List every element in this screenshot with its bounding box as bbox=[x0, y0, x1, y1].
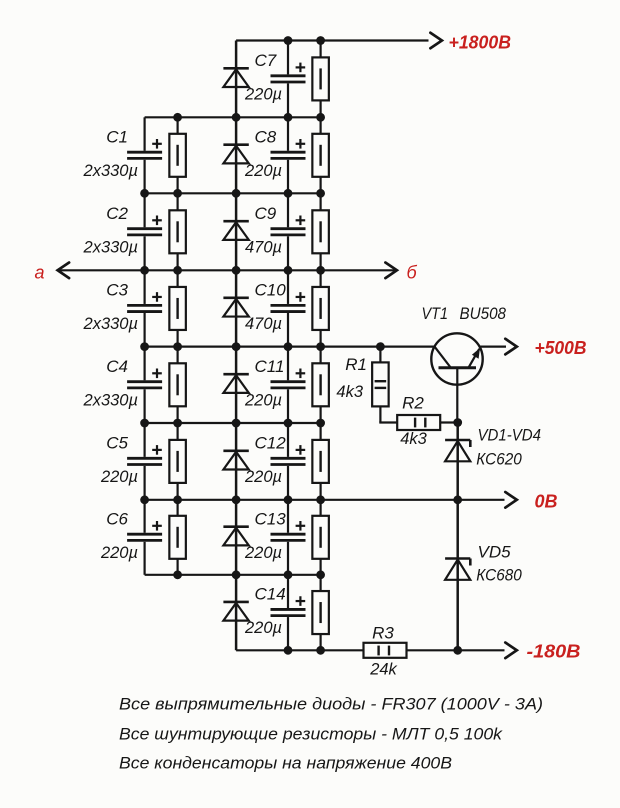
wire mid cap column seg 3 bbox=[287, 270, 289, 346]
wire R1 top stub bbox=[379, 347, 381, 363]
label KC680 bbox=[476, 566, 522, 585]
wire row3 a-b bus bbox=[60, 269, 396, 271]
svg-text:C3: C3 bbox=[106, 280, 128, 299]
resistor shunt of C6 bbox=[169, 516, 186, 559]
wire mid cap column seg 6 bbox=[287, 500, 289, 575]
resistor shunt of C10 bbox=[312, 287, 329, 330]
wire mid cap column seg 5 bbox=[287, 423, 289, 500]
arrow +1800V output bbox=[430, 33, 442, 49]
svg-text:470µ: 470µ bbox=[245, 238, 282, 256]
svg-text:4k3: 4k3 bbox=[336, 383, 363, 401]
wire right resistor column seg 1 bbox=[320, 117, 322, 193]
svg-text:R3: R3 bbox=[372, 624, 394, 643]
svg-text:Все выпрямительные диоды - FR3: Все выпрямительные диоды - FR307 (1000V … bbox=[119, 695, 543, 714]
wire left cap column seg 4 bbox=[144, 423, 146, 500]
wire left resistor column seg 5 bbox=[177, 500, 179, 575]
value C6 220µ bbox=[100, 544, 138, 562]
value R3 24k bbox=[369, 661, 397, 679]
label VD1-VD4 bbox=[478, 426, 542, 445]
wire left resistor column seg 4 bbox=[177, 423, 179, 500]
resistor shunt of C9 bbox=[312, 210, 329, 253]
label node b bbox=[407, 263, 418, 283]
svg-text:C2: C2 bbox=[106, 204, 128, 223]
capacitor C8 bbox=[271, 139, 306, 158]
svg-text:C1: C1 bbox=[106, 127, 128, 146]
value C11 220µ bbox=[244, 391, 282, 409]
svg-text:C4: C4 bbox=[106, 357, 128, 376]
diode VD-rect5 bbox=[223, 374, 248, 393]
capacitor C5 bbox=[127, 445, 162, 464]
value C1 2x330µ bbox=[83, 162, 138, 180]
arrow node a (left) bbox=[58, 263, 70, 279]
svg-text:а: а bbox=[35, 263, 45, 283]
value C14 220µ bbox=[244, 619, 282, 637]
label C11 bbox=[255, 357, 285, 376]
value C12 220µ bbox=[244, 468, 282, 486]
value C3 2x330µ bbox=[83, 315, 138, 333]
svg-text:220µ: 220µ bbox=[244, 619, 282, 637]
resistor shunt of C12 bbox=[312, 440, 329, 483]
diode VD-rect1 bbox=[223, 68, 248, 87]
label +1800V bbox=[449, 33, 512, 53]
zener diode VD1-VD4 bbox=[445, 440, 470, 461]
wire right resistor column seg 7 bbox=[320, 575, 322, 651]
wire left cap column seg 3 bbox=[144, 347, 146, 423]
svg-text:BU508: BU508 bbox=[460, 304, 507, 323]
label C12 bbox=[255, 433, 287, 452]
resistor shunt of C2 bbox=[169, 210, 186, 253]
capacitor C9 bbox=[271, 216, 306, 235]
capacitor C3 bbox=[127, 292, 162, 311]
diode VD-rect6 bbox=[223, 451, 248, 470]
label R1 bbox=[345, 355, 367, 374]
svg-text:Все конденсаторы на напряжение: Все конденсаторы на напряжение 400В bbox=[119, 753, 452, 772]
svg-text:220µ: 220µ bbox=[244, 544, 282, 562]
value C13 220µ bbox=[244, 544, 282, 562]
svg-text:C9: C9 bbox=[255, 204, 277, 223]
resistor shunt of C13 bbox=[312, 516, 329, 559]
wire ladder row1 bbox=[145, 116, 321, 118]
label C5 bbox=[106, 433, 128, 452]
svg-text:R1: R1 bbox=[345, 355, 367, 374]
wire base node to 0V through VD1-VD4 bbox=[456, 423, 459, 500]
wire mid cap column seg 1 bbox=[287, 117, 289, 193]
wire mid cap column seg 7 bbox=[287, 575, 289, 651]
svg-text:220µ: 220µ bbox=[244, 162, 282, 180]
diode VD-rect3 bbox=[223, 221, 248, 240]
label KC620 bbox=[476, 450, 522, 469]
svg-text:+500В: +500В bbox=[535, 338, 587, 358]
svg-text:C11: C11 bbox=[255, 357, 285, 376]
value C5 220µ bbox=[100, 468, 138, 486]
node base/R2/zener junction bbox=[453, 418, 462, 427]
wire left resistor column seg 0 bbox=[177, 117, 179, 193]
wire R1 bottom to R2 bbox=[379, 406, 397, 422]
svg-text:б: б bbox=[407, 263, 418, 283]
wire left cap column seg 0 bbox=[144, 117, 146, 193]
label C14 bbox=[255, 585, 286, 604]
label VT1 bbox=[422, 304, 449, 323]
svg-text:0В: 0В bbox=[535, 492, 558, 512]
svg-text:470µ: 470µ bbox=[245, 315, 282, 333]
capacitor C10 bbox=[271, 292, 306, 311]
arrow node b (right) bbox=[385, 263, 397, 279]
svg-text:2x330µ: 2x330µ bbox=[83, 238, 138, 256]
label C3 bbox=[106, 280, 128, 299]
label +500V bbox=[535, 338, 587, 358]
label C6 bbox=[106, 509, 128, 528]
resistor shunt of C5 bbox=[169, 440, 186, 483]
capacitor C11 bbox=[271, 369, 306, 388]
svg-text:C13: C13 bbox=[255, 509, 287, 528]
value C2 2x330µ bbox=[83, 238, 138, 256]
wire right resistor column seg 3 bbox=[320, 270, 322, 346]
arrow 0V output bbox=[505, 492, 517, 508]
zener diode VD5 bbox=[445, 559, 470, 580]
svg-text:C14: C14 bbox=[255, 585, 286, 604]
label C10 bbox=[255, 280, 287, 299]
wire top rail +1800V (row0) bbox=[236, 39, 428, 41]
svg-text:КС680: КС680 bbox=[476, 566, 522, 585]
capacitor C12 bbox=[271, 445, 306, 464]
wire mid cap column seg 4 bbox=[287, 347, 289, 423]
svg-text:C5: C5 bbox=[106, 433, 128, 452]
svg-text:220µ: 220µ bbox=[100, 468, 138, 486]
wire mid cap column seg 0 bbox=[287, 41, 289, 118]
svg-text:220µ: 220µ bbox=[100, 544, 138, 562]
value R2 4k3 bbox=[400, 430, 427, 448]
wire right resistor column seg 2 bbox=[320, 193, 322, 270]
label C7 bbox=[255, 51, 277, 70]
resistor shunt of C3 bbox=[169, 287, 186, 330]
svg-text:VD1-VD4: VD1-VD4 bbox=[478, 426, 542, 445]
capacitor C13 bbox=[271, 521, 306, 540]
label C8 bbox=[255, 127, 277, 146]
value R1 4k3 bbox=[336, 383, 363, 401]
wire mid cap column seg 2 bbox=[287, 193, 289, 270]
wire 0V to -180V rail through VD5 bbox=[456, 500, 459, 651]
wire emitter to +500V arrow bbox=[479, 346, 506, 348]
resistor shunt of C4 bbox=[169, 363, 186, 406]
svg-text:4k3: 4k3 bbox=[400, 430, 427, 448]
svg-text:-180В: -180В bbox=[527, 642, 581, 662]
svg-text:2x330µ: 2x330µ bbox=[83, 315, 138, 333]
resistor shunt of C7 bbox=[312, 57, 329, 100]
label R2 bbox=[402, 394, 424, 413]
wire row4 to transistor collector bbox=[145, 346, 435, 348]
value C10 470µ bbox=[245, 315, 282, 333]
wire row6 0V bus bbox=[145, 499, 505, 501]
label R3 bbox=[372, 624, 394, 643]
resistor shunt of C11 bbox=[312, 363, 329, 406]
svg-text:220µ: 220µ bbox=[244, 391, 282, 409]
resistor shunt of C14 bbox=[312, 591, 329, 634]
capacitor C14 bbox=[271, 596, 306, 615]
value C9 470µ bbox=[245, 238, 282, 256]
value C8 220µ bbox=[244, 162, 282, 180]
wire bottom rail (row8) left of R3 bbox=[236, 649, 363, 651]
svg-text:+1800В: +1800В bbox=[449, 33, 512, 53]
label C2 bbox=[106, 204, 128, 223]
wire left resistor column seg 3 bbox=[177, 347, 179, 423]
label C13 bbox=[255, 509, 287, 528]
svg-text:2x330µ: 2x330µ bbox=[83, 162, 138, 180]
label -180V bbox=[527, 642, 581, 662]
label BU508 bbox=[460, 304, 507, 323]
wire bottom rail (row8) right of R3 bbox=[407, 649, 505, 651]
wire diode column bbox=[235, 41, 238, 651]
wire right resistor column seg 0 bbox=[320, 41, 322, 118]
capacitor C6 bbox=[127, 521, 162, 540]
resistor R1 bbox=[372, 362, 389, 406]
svg-text:220µ: 220µ bbox=[244, 468, 282, 486]
diode VD-rect2 bbox=[223, 145, 248, 164]
transistor VT1 BU508 bbox=[431, 333, 482, 422]
capacitor C2 bbox=[127, 216, 162, 235]
label C1 bbox=[106, 127, 128, 146]
svg-text:VT1: VT1 bbox=[422, 304, 449, 323]
diode VD-rect8 bbox=[223, 602, 248, 621]
resistor shunt of C8 bbox=[312, 134, 329, 177]
wire left resistor column seg 1 bbox=[177, 193, 179, 270]
label node a bbox=[35, 263, 45, 283]
resistor shunt of C1 bbox=[169, 134, 186, 177]
svg-text:Все шунтирующие резисторы - МЛ: Все шунтирующие резисторы - МЛТ 0,5 100k bbox=[119, 725, 504, 744]
svg-text:C12: C12 bbox=[255, 433, 287, 452]
value C4 2x330µ bbox=[83, 391, 138, 409]
svg-text:VD5: VD5 bbox=[478, 543, 512, 562]
arrow +500V output bbox=[505, 339, 517, 355]
svg-text:24k: 24k bbox=[369, 661, 397, 679]
svg-text:C8: C8 bbox=[255, 127, 277, 146]
svg-text:2x330µ: 2x330µ bbox=[83, 391, 138, 409]
svg-text:C7: C7 bbox=[255, 51, 277, 70]
svg-text:R2: R2 bbox=[402, 394, 424, 413]
value C7 220µ bbox=[244, 85, 282, 103]
diode VD-rect4 bbox=[223, 298, 248, 317]
resistor R3 bbox=[364, 643, 407, 658]
svg-text:КС620: КС620 bbox=[476, 450, 522, 469]
capacitor C1 bbox=[127, 139, 162, 158]
resistor R2 bbox=[397, 415, 440, 430]
label C4 bbox=[106, 357, 128, 376]
capacitor C7 bbox=[271, 63, 306, 82]
capacitor C4 bbox=[127, 369, 162, 388]
wire right resistor column seg 5 bbox=[320, 423, 322, 500]
wire right resistor column seg 4 bbox=[320, 347, 322, 423]
wire R2 to base node bbox=[440, 421, 458, 423]
label VD5 bbox=[478, 543, 512, 562]
wire left cap column seg 1 bbox=[144, 193, 146, 270]
wire ladder row5 bbox=[145, 422, 321, 424]
svg-text:C10: C10 bbox=[255, 280, 287, 299]
wire left resistor column seg 2 bbox=[177, 270, 179, 346]
wire left cap column seg 5 bbox=[144, 500, 146, 575]
label 0V bbox=[535, 492, 558, 512]
label C9 bbox=[255, 204, 277, 223]
wire right resistor column seg 6 bbox=[320, 500, 322, 575]
svg-text:C6: C6 bbox=[106, 509, 128, 528]
wire ladder row2 bbox=[145, 192, 321, 194]
wire ladder row7 bbox=[145, 574, 321, 576]
wire left cap column seg 2 bbox=[144, 270, 146, 346]
svg-text:220µ: 220µ bbox=[244, 85, 282, 103]
arrow -180V output bbox=[505, 643, 517, 659]
diode VD-rect7 bbox=[223, 527, 248, 546]
